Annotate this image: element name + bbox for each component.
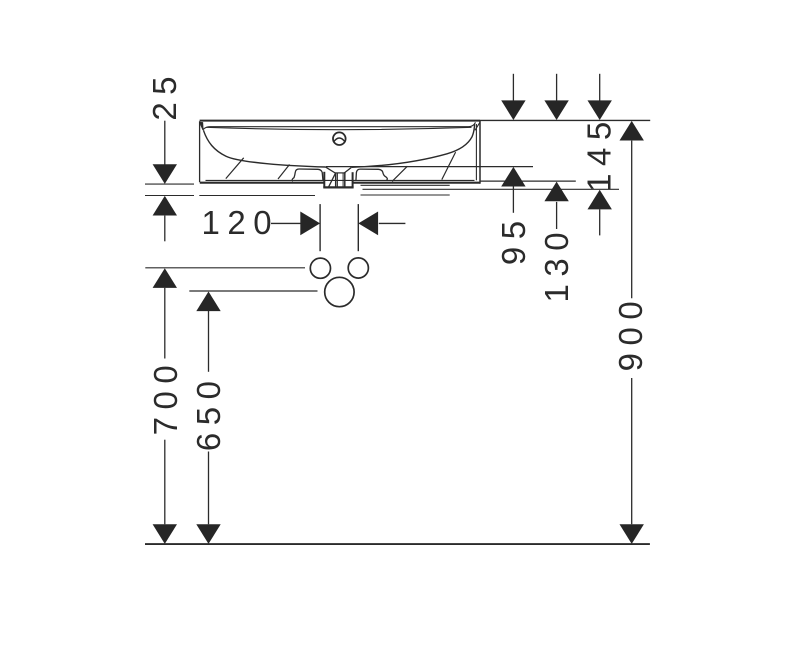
basin left corner wedge (200, 123, 203, 130)
dim tail 145 lower (599, 209, 601, 235)
arrowhead down 650 (196, 524, 220, 544)
drain body left outer wall (323, 172, 325, 188)
120 leader line left (271, 222, 301, 224)
arrowhead right 120 (300, 212, 320, 236)
basin underside facet diagonal 3 (392, 166, 407, 181)
basin right corner wedge (475, 123, 480, 131)
basin bowl curve left (203, 130, 326, 167)
svg-text:145: 145 (580, 114, 617, 192)
faucet hole center large circle (325, 277, 354, 306)
dimension line 650 reference (189, 290, 317, 292)
basin left edge (199, 121, 201, 182)
drain neck inner left line (336, 173, 338, 187)
arrowhead up 650 (196, 292, 220, 312)
dim tail 700 upper (164, 288, 166, 359)
dimension line 130 reference (480, 180, 576, 182)
drain funnel right slope (344, 168, 351, 174)
arrowhead up 145 (588, 190, 612, 210)
arrowhead up 700 (153, 268, 177, 288)
overflow hole circle (333, 132, 346, 145)
overflow hole inner arc (334, 138, 346, 142)
faucet hole left circle (310, 258, 330, 278)
basin bottom thick line right (353, 182, 480, 184)
svg-text:650: 650 (190, 374, 227, 452)
svg-text:130: 130 (538, 225, 575, 303)
svg-text:120: 120 (202, 204, 280, 241)
arrowhead up 25 (153, 196, 177, 216)
basin right foot arch (356, 169, 387, 181)
arrowhead up 130 (544, 182, 568, 202)
drain funnel left slope (326, 167, 335, 173)
120 dimension left extension line (319, 204, 321, 251)
wire ground line (145, 543, 650, 545)
svg-text:700: 700 (147, 358, 184, 436)
drain body right outer wall (352, 172, 354, 187)
arrowhead up 95 (501, 167, 525, 187)
drain bottom bar (323, 186, 353, 188)
120 dimension right extension line (357, 204, 359, 251)
arrowhead down 25 (153, 164, 177, 184)
drain neck right wall (344, 173, 346, 188)
basin right outer edge (479, 121, 481, 184)
basin bottom thick line left (200, 182, 324, 184)
dimension line 145 long reference (363, 188, 620, 190)
dim tail 25 above (164, 121, 166, 165)
basin top rim line (200, 120, 480, 122)
under-basin short line right lower (361, 194, 450, 196)
under-basin line left (199, 195, 315, 197)
25 dimension bottom tick line (145, 195, 194, 197)
svg-text:900: 900 (612, 294, 649, 372)
25 dimension top tick line (145, 183, 194, 185)
basin rim sag arc (207, 127, 472, 129)
basin underside facet diagonal 2 (278, 165, 290, 180)
arrowhead left 120 (358, 212, 378, 236)
dimension line 700 reference (145, 267, 305, 269)
basin bowl curve right (352, 124, 475, 167)
svg-text:95: 95 (495, 213, 532, 265)
dim tail 130 lower (556, 202, 558, 229)
dim tail 25 below (164, 216, 166, 242)
drain neck left wall (335, 173, 337, 188)
dim tail 145 upper (599, 74, 601, 101)
basin bottom upper thin line (206, 179, 475, 181)
120 leader line right (379, 222, 406, 224)
drain neck hatch diagonal (328, 174, 335, 188)
wire top reference extension line (480, 119, 650, 121)
drain neck top edge (335, 172, 346, 174)
under-basin short line right upper (361, 184, 450, 186)
drain neck inner right line (342, 173, 344, 187)
arrowhead down 900 (620, 524, 644, 544)
arrowhead down 95 top (501, 100, 525, 120)
dim tail 650 upper (208, 311, 210, 372)
dimension line 95 reference (326, 166, 533, 168)
dim tail 650 lower (208, 452, 210, 525)
arrowhead up 900 (620, 121, 644, 141)
svg-text:25: 25 (146, 69, 183, 121)
dim tail 95 lower (512, 186, 514, 213)
basin underside facet diagonal 1 (226, 158, 244, 179)
basin rim second line (203, 122, 475, 129)
basin right inner edge (475, 124, 477, 180)
dim tail 900 lower (631, 378, 633, 524)
dim tail 95 upper (512, 74, 514, 101)
faucet hole right circle (348, 258, 368, 278)
dim tail 130 upper (556, 74, 558, 101)
dim tail 900 upper (631, 141, 633, 299)
arrowhead down 145 top (588, 100, 612, 120)
dim tail 700 lower (164, 440, 166, 525)
basin underside facet diagonal 4 (442, 152, 456, 180)
basin left foot arch (292, 169, 323, 181)
arrowhead down 700 (153, 524, 177, 544)
arrowhead down 130 top (544, 100, 568, 120)
